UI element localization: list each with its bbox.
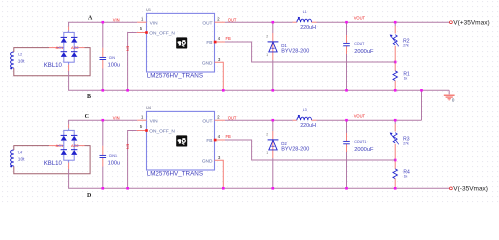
svg-text:VIN: VIN bbox=[113, 115, 120, 120]
svg-text:2: 2 bbox=[266, 35, 268, 39]
svg-text:AC1: AC1 bbox=[56, 45, 64, 50]
pin 2 OUT stub bbox=[215, 119, 226, 121]
pin 4 FB stub bbox=[215, 139, 226, 141]
svg-text:2000uF: 2000uF bbox=[354, 147, 374, 153]
pin 4 FB stub bbox=[215, 41, 226, 43]
wire bbox=[394, 179, 396, 189]
svg-text:10t: 10t bbox=[18, 156, 25, 162]
junction bbox=[345, 89, 348, 92]
svg-text:U1: U1 bbox=[146, 8, 151, 12]
svg-text:L2: L2 bbox=[18, 52, 22, 56]
diode D2 bbox=[268, 140, 279, 150]
wire bbox=[14, 48, 90, 76]
svg-text:100u: 100u bbox=[108, 63, 120, 69]
resistor R4 bbox=[393, 169, 397, 179]
svg-text:BYV28-200: BYV28-200 bbox=[281, 146, 309, 152]
wire bbox=[68, 22, 70, 26]
potentiometer R3 bbox=[390, 133, 399, 145]
wire bbox=[394, 46, 396, 71]
svg-text:FB: FB bbox=[206, 40, 212, 46]
junction bbox=[345, 119, 348, 122]
bridge diode bottom-right bbox=[71, 52, 77, 57]
wire VOUT rail bbox=[317, 119, 422, 121]
TI logo bbox=[176, 135, 187, 146]
svg-text:EN: EN bbox=[126, 46, 131, 52]
wire FB net bbox=[225, 140, 395, 160]
capacitor CIN1 bbox=[100, 155, 107, 157]
wire diode branch bbox=[272, 22, 274, 33]
wire bbox=[68, 120, 70, 124]
svg-text:KBL10: KBL10 bbox=[44, 63, 63, 69]
terminal V(+35Vmax) bbox=[450, 21, 453, 24]
junction bbox=[420, 89, 423, 92]
wire bbox=[346, 133, 348, 141]
terminal V(-35Vmax) bbox=[450, 187, 453, 190]
TI logo bbox=[176, 37, 187, 48]
svg-text:FB: FB bbox=[226, 36, 232, 41]
svg-text:CIN1: CIN1 bbox=[109, 154, 117, 158]
junction bbox=[126, 187, 129, 190]
svg-text:L3: L3 bbox=[303, 108, 307, 112]
wire bbox=[68, 169, 70, 188]
resistor R1 bbox=[393, 71, 397, 81]
junction bbox=[222, 89, 225, 92]
svg-text:V(+35Vmax): V(+35Vmax) bbox=[453, 20, 489, 27]
bridge diode bottom-right bbox=[71, 150, 77, 155]
wire bbox=[102, 146, 104, 156]
junction bbox=[272, 89, 275, 92]
wire bbox=[14, 146, 90, 174]
capacitor COUT bbox=[343, 43, 350, 45]
pin 5 ON_OFF_N stub bbox=[137, 130, 147, 132]
wire bbox=[102, 167, 104, 189]
svg-text:EN: EN bbox=[126, 144, 131, 150]
svg-text:ON_OFF_N: ON_OFF_N bbox=[149, 31, 175, 37]
svg-text:COUT1: COUT1 bbox=[354, 140, 366, 144]
wire to ground bbox=[448, 90, 450, 94]
wire FB net bbox=[225, 42, 395, 62]
svg-text:D2: D2 bbox=[281, 141, 287, 146]
svg-text:220uH: 220uH bbox=[300, 25, 316, 31]
wire OUT net bbox=[225, 21, 293, 23]
wire bbox=[394, 81, 396, 91]
svg-text:D1: D1 bbox=[281, 43, 287, 48]
wire bbox=[312, 21, 317, 23]
wire bbox=[346, 22, 348, 35]
wire bbox=[394, 22, 396, 26]
wire bbox=[68, 125, 70, 129]
bridge rectifier KBL10 bbox=[57, 128, 79, 162]
op-amp regulator U1 LM2576HV_TRANS bbox=[147, 13, 215, 72]
junction bbox=[222, 187, 225, 190]
svg-text:V(-35Vmax): V(-35Vmax) bbox=[453, 186, 488, 193]
wire bbox=[102, 69, 104, 91]
junction bbox=[102, 21, 105, 24]
svg-text:100u: 100u bbox=[108, 161, 120, 167]
wire bbox=[293, 21, 297, 23]
wire VOUT rail bbox=[317, 21, 450, 23]
svg-text:LM2576HV_TRANS: LM2576HV_TRANS bbox=[147, 171, 203, 178]
bridge rectifier KBL10 bbox=[57, 30, 79, 64]
inductor L2 bbox=[10, 52, 14, 69]
wire bbox=[68, 71, 70, 90]
junction bbox=[272, 187, 275, 190]
wire bbox=[68, 163, 70, 170]
svg-text:GND: GND bbox=[202, 158, 213, 164]
wire bbox=[394, 124, 396, 132]
bridge diode bottom-left bbox=[61, 52, 67, 57]
wire bbox=[394, 144, 396, 169]
wire bbox=[272, 33, 274, 60]
svg-text:1k: 1k bbox=[404, 174, 408, 178]
wire bbox=[102, 60, 104, 69]
junction bbox=[126, 89, 129, 92]
svg-text:LM2576HV_TRANS: LM2576HV_TRANS bbox=[147, 73, 203, 80]
wire EN net bbox=[128, 131, 137, 189]
wire bbox=[79, 145, 85, 147]
junction FB bbox=[394, 159, 397, 162]
svg-text:VOUT: VOUT bbox=[354, 114, 366, 119]
svg-text:GND: GND bbox=[202, 60, 213, 66]
junction bbox=[102, 119, 105, 122]
potentiometer R2 bbox=[390, 35, 399, 47]
wire bbox=[394, 26, 396, 34]
wire bbox=[346, 46, 348, 54]
bridge diode top-right bbox=[71, 135, 77, 140]
wire bbox=[102, 48, 104, 58]
pin 1 VIN stub bbox=[137, 119, 146, 121]
bridge diode top-left bbox=[61, 135, 67, 140]
inductor L1 bbox=[297, 17, 312, 22]
wire bbox=[346, 144, 348, 152]
wire diode branch bbox=[272, 120, 274, 131]
wire bbox=[346, 120, 348, 133]
svg-text:B: B bbox=[87, 94, 91, 100]
inductor L4 bbox=[10, 150, 14, 167]
wire OUT net bbox=[225, 119, 293, 121]
junction bbox=[272, 119, 275, 122]
svg-text:AC2: AC2 bbox=[71, 143, 79, 148]
wire bbox=[68, 65, 70, 72]
junction bbox=[345, 21, 348, 24]
svg-text:D: D bbox=[87, 193, 92, 199]
wire node rail bottom bbox=[68, 89, 449, 91]
wire link node B to lower rail bbox=[421, 90, 423, 120]
wire EN net bbox=[128, 33, 137, 91]
svg-text:2: 2 bbox=[266, 133, 268, 137]
diode D1 bbox=[268, 42, 279, 52]
wire bbox=[272, 158, 274, 188]
wire bbox=[14, 146, 49, 150]
svg-text:2000uF: 2000uF bbox=[354, 49, 374, 55]
wire node rail top bbox=[68, 119, 137, 121]
svg-text:L4: L4 bbox=[18, 150, 22, 154]
svg-text:COUT: COUT bbox=[354, 42, 365, 46]
junction bbox=[394, 21, 397, 24]
wire bbox=[79, 47, 85, 49]
wire bbox=[293, 119, 297, 121]
svg-text:27k: 27k bbox=[403, 43, 409, 47]
wire bbox=[49, 47, 57, 49]
svg-text:C: C bbox=[85, 114, 89, 120]
wire bbox=[394, 120, 396, 124]
junction bbox=[345, 187, 348, 190]
junction bbox=[394, 187, 397, 190]
pin 5 ON_OFF_N stub bbox=[137, 32, 147, 34]
svg-text:1: 1 bbox=[266, 53, 268, 57]
svg-text:L1: L1 bbox=[303, 10, 307, 14]
svg-text:VIN: VIN bbox=[150, 21, 159, 27]
wire bbox=[272, 131, 274, 158]
junction bbox=[102, 89, 105, 92]
bridge diode top-right bbox=[71, 37, 77, 42]
op-amp regulator U4 LM2576HV_TRANS bbox=[147, 111, 215, 170]
pin 3 GND stub bbox=[215, 62, 224, 90]
svg-text:KBL10: KBL10 bbox=[44, 161, 63, 167]
junction bbox=[394, 89, 397, 92]
wire node rail bottom bbox=[68, 187, 449, 189]
bridge diode bottom-left bbox=[61, 150, 67, 155]
svg-text:1k: 1k bbox=[404, 76, 408, 80]
svg-text:1: 1 bbox=[266, 151, 268, 155]
wire bbox=[102, 120, 104, 146]
svg-text:FB: FB bbox=[226, 134, 232, 139]
svg-text:A: A bbox=[88, 16, 93, 22]
wire bbox=[102, 158, 104, 167]
wire bbox=[272, 60, 274, 90]
junction bbox=[272, 21, 275, 24]
wire bbox=[102, 22, 104, 48]
svg-text:OUT: OUT bbox=[228, 115, 237, 120]
svg-text:U4: U4 bbox=[146, 106, 151, 110]
wire bbox=[346, 54, 348, 90]
svg-text:CIN: CIN bbox=[109, 56, 116, 60]
svg-text:AC1: AC1 bbox=[56, 143, 64, 148]
capacitor COUT1 bbox=[343, 141, 350, 143]
svg-text:VOUT: VOUT bbox=[354, 16, 366, 21]
ground 0 bbox=[444, 95, 455, 101]
svg-text:VIN: VIN bbox=[113, 17, 120, 22]
bridge diode top-left bbox=[61, 37, 67, 42]
svg-text:OUT: OUT bbox=[202, 21, 212, 27]
svg-text:ON_OFF_N: ON_OFF_N bbox=[149, 129, 175, 135]
junction bbox=[102, 187, 105, 190]
wire bbox=[312, 119, 317, 121]
wire bbox=[49, 145, 57, 147]
wire bbox=[14, 48, 49, 52]
svg-text:VIN: VIN bbox=[150, 119, 159, 125]
svg-text:OUT: OUT bbox=[228, 17, 237, 22]
junction FB bbox=[394, 61, 397, 64]
wire bbox=[346, 152, 348, 188]
svg-text:220uH: 220uH bbox=[300, 123, 316, 129]
svg-text:AC2: AC2 bbox=[71, 45, 79, 50]
wire bbox=[346, 35, 348, 43]
svg-text:27k: 27k bbox=[403, 141, 409, 145]
capacitor CIN bbox=[100, 57, 107, 59]
pin 1 VIN stub bbox=[137, 21, 146, 23]
inductor L3 bbox=[297, 115, 312, 120]
wire node rail top bbox=[68, 21, 137, 23]
svg-text:BYV28-200: BYV28-200 bbox=[281, 48, 309, 54]
pin 2 OUT stub bbox=[215, 21, 226, 23]
wire bbox=[68, 27, 70, 31]
svg-text:FB: FB bbox=[206, 138, 212, 144]
svg-text:10t: 10t bbox=[18, 58, 25, 64]
pin 3 GND stub bbox=[215, 160, 224, 188]
svg-text:OUT: OUT bbox=[202, 119, 212, 125]
junction bbox=[394, 119, 397, 122]
